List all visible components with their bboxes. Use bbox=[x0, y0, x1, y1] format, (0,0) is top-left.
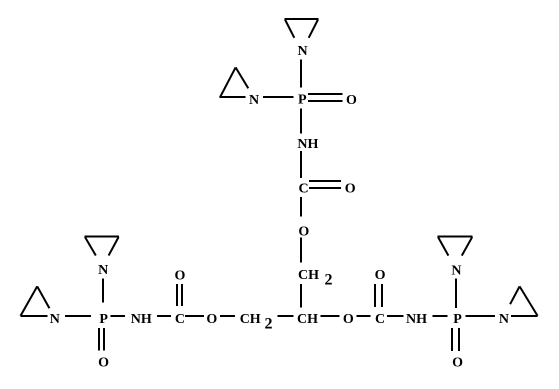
svg-text:P: P bbox=[453, 312, 462, 327]
bond CH-O6 bbox=[320, 315, 339, 317]
bond NH1-C1 bbox=[300, 151, 302, 178]
svg-text:2: 2 bbox=[265, 316, 273, 333]
svg-text:NH: NH bbox=[406, 312, 427, 327]
svg-text:O: O bbox=[375, 268, 386, 283]
svg-text:O: O bbox=[346, 93, 357, 108]
bond P2-N3 bbox=[102, 279, 104, 303]
bond CH-CH2 left bbox=[277, 315, 293, 317]
aziridine ring top (top arm) bbox=[285, 19, 319, 38]
aziridine ring upper-left (top arm) bbox=[220, 67, 249, 97]
bond CH2-CH bbox=[300, 284, 302, 308]
bond P2-NH2 bbox=[111, 315, 125, 317]
svg-text:N: N bbox=[50, 312, 60, 327]
double bond C3=O7 bbox=[375, 284, 382, 307]
svg-text:C: C bbox=[175, 312, 185, 327]
svg-text:NH: NH bbox=[131, 312, 152, 327]
bond C1-O2 bbox=[300, 197, 302, 217]
bond C3-NH3 bbox=[387, 315, 404, 317]
atom CH2 top bbox=[298, 268, 333, 288]
svg-text:N: N bbox=[499, 312, 509, 327]
svg-text:C: C bbox=[375, 312, 385, 327]
svg-text:C: C bbox=[298, 182, 308, 197]
bond C2-O3 bbox=[185, 315, 204, 317]
bond P3-N6 bbox=[465, 315, 495, 317]
svg-text:O: O bbox=[452, 355, 463, 370]
double bond P3=O8 bbox=[452, 328, 459, 351]
svg-text:N: N bbox=[249, 93, 259, 108]
aziridine ring far-right bbox=[510, 286, 537, 316]
svg-text:O: O bbox=[298, 224, 309, 239]
svg-text:CH: CH bbox=[297, 312, 318, 327]
bond N1-P1 bbox=[300, 59, 302, 87]
double bond P2=O5 bbox=[99, 328, 104, 350]
svg-text:O: O bbox=[174, 268, 185, 283]
svg-text:O: O bbox=[345, 182, 356, 197]
bond O2-CH2 bbox=[300, 238, 302, 263]
double bond C1=O bbox=[309, 181, 341, 188]
double bond C2=O4 bbox=[177, 284, 182, 306]
bond NH3-P3 bbox=[432, 315, 447, 317]
bond N2-P1 bbox=[263, 96, 294, 98]
svg-text:O: O bbox=[343, 312, 354, 327]
bond O6-C3 bbox=[357, 315, 371, 317]
bond P3-N5 bbox=[455, 278, 457, 308]
svg-text:O: O bbox=[98, 355, 109, 370]
aziridine ring top (left arm) bbox=[85, 237, 119, 256]
atom CH2 left bbox=[240, 312, 273, 333]
bond P1-N(H) bbox=[300, 109, 302, 134]
svg-text:2: 2 bbox=[325, 271, 333, 288]
svg-text:P: P bbox=[99, 312, 108, 327]
aziridine ring top (right arm) bbox=[438, 237, 473, 256]
svg-text:NH: NH bbox=[297, 137, 318, 152]
svg-text:CH: CH bbox=[240, 312, 261, 327]
svg-text:N: N bbox=[451, 263, 461, 278]
aziridine ring far-left bbox=[21, 286, 50, 316]
svg-text:O: O bbox=[206, 312, 217, 327]
double bond P1=O1 bbox=[308, 94, 342, 101]
bond N4-P2 bbox=[65, 315, 91, 317]
svg-text:CH: CH bbox=[298, 268, 319, 283]
bond NH2-C2 bbox=[157, 315, 171, 317]
svg-text:N: N bbox=[98, 263, 108, 278]
svg-text:P: P bbox=[298, 93, 307, 108]
bond O3-CH2 left bbox=[220, 315, 235, 317]
svg-text:N: N bbox=[297, 44, 307, 59]
